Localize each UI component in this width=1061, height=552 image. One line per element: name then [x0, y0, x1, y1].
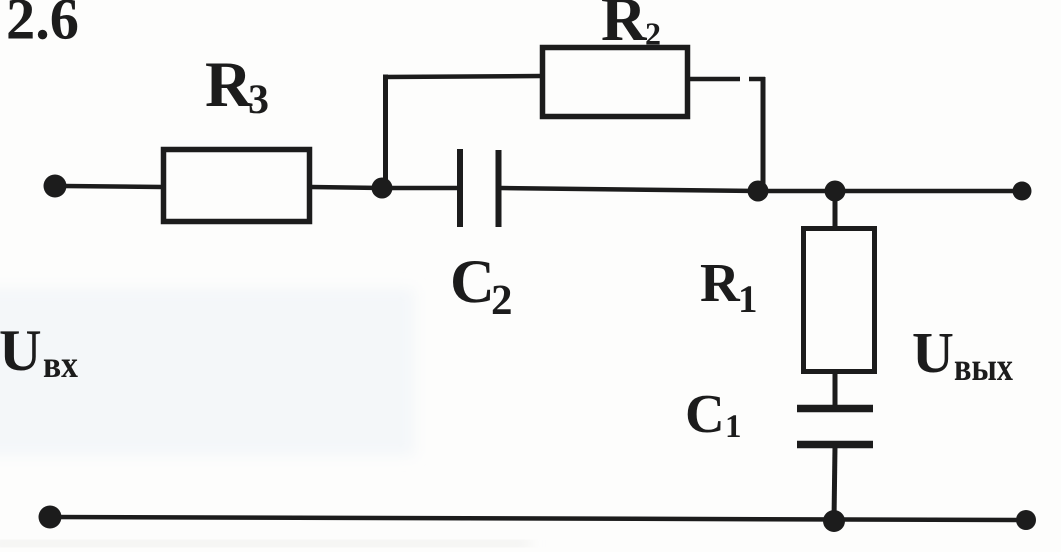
- capacitor C2 right plate: [496, 150, 502, 227]
- wire node B to node C: [758, 189, 835, 194]
- node: bottom-left terminal: [39, 506, 62, 529]
- capacitor C1 top plate: [797, 405, 873, 413]
- wire riser node A up: [383, 75, 388, 191]
- resistor R2: [543, 48, 688, 117]
- wire C2 to node B: [501, 188, 758, 191]
- svg-text:R: R: [205, 49, 253, 121]
- wire input to R3: [64, 186, 162, 187]
- wire C1 to bottom rail: [834, 447, 835, 520]
- wire node A to C2: [382, 186, 458, 191]
- svg-text:вых: вых: [954, 344, 1013, 389]
- svg-text:вх: вх: [43, 344, 78, 386]
- wire R3 to node A: [311, 187, 384, 188]
- node: output top terminal: [1013, 182, 1032, 201]
- node: input top terminal: [44, 175, 67, 198]
- svg-text:2: 2: [645, 16, 661, 52]
- svg-text:U: U: [912, 320, 954, 385]
- svg-text:1: 1: [738, 278, 758, 321]
- wire drop to node B: [761, 77, 766, 191]
- svg-text:2.6: 2.6: [6, 0, 79, 52]
- node: bottom-right terminal: [1016, 510, 1036, 530]
- svg-text:U: U: [0, 317, 42, 383]
- node C junction: [825, 181, 846, 202]
- svg-text:C: C: [450, 248, 495, 316]
- node A junction: [372, 178, 393, 199]
- wire node C to output terminal: [835, 189, 1022, 194]
- wire node C down to R1: [833, 191, 838, 228]
- svg-text:1: 1: [725, 409, 742, 445]
- wire to R2 left: [383, 76, 541, 77]
- wire R1 to C1: [833, 372, 838, 407]
- svg-text:R: R: [601, 0, 648, 54]
- svg-text:R: R: [700, 252, 741, 313]
- node B junction: [748, 181, 769, 202]
- svg-text:2: 2: [491, 277, 513, 324]
- svg-text:3: 3: [248, 77, 269, 123]
- svg-text:C: C: [685, 383, 725, 444]
- wire R2 right lead with gap: [690, 77, 740, 82]
- resistor R1: [804, 229, 875, 372]
- capacitor C1 bottom plate: [797, 441, 873, 449]
- node: bottom junction: [823, 510, 845, 532]
- wire bottom rail: [50, 517, 1026, 520]
- resistor R3: [164, 150, 310, 222]
- capacitor C2 left plate: [457, 149, 463, 227]
